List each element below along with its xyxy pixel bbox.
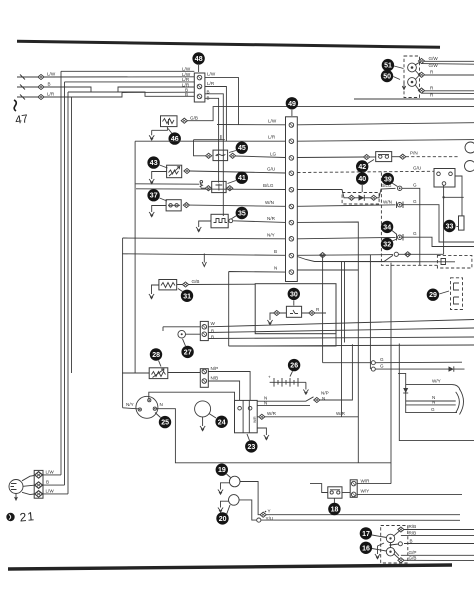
svg-text:N: N	[432, 399, 435, 404]
svg-text:R/B: R/B	[409, 524, 417, 529]
svg-text:35: 35	[238, 211, 246, 218]
svg-text:G/B: G/B	[409, 556, 417, 561]
svg-text:N: N	[160, 402, 163, 407]
svg-text:N: N	[322, 396, 325, 401]
svg-text:G/U: G/U	[413, 166, 421, 171]
svg-text:B: B	[46, 479, 49, 484]
svg-text:45: 45	[238, 145, 246, 152]
svg-text:B/LG: B/LG	[263, 183, 274, 188]
svg-text:27: 27	[184, 349, 192, 356]
svg-text:G/B: G/B	[192, 279, 200, 284]
svg-text:G: G	[380, 357, 384, 362]
svg-text:Y/U: Y/U	[266, 516, 274, 521]
svg-text:Y: Y	[268, 509, 271, 514]
svg-text:G: G	[380, 364, 384, 369]
svg-text:N/Y: N/Y	[126, 402, 134, 407]
svg-text:47: 47	[15, 113, 29, 127]
svg-text:G: G	[413, 183, 417, 188]
svg-text:W/Y: W/Y	[361, 488, 370, 493]
svg-text:28: 28	[152, 352, 160, 359]
svg-text:25: 25	[161, 420, 169, 427]
svg-text:43: 43	[150, 160, 158, 167]
svg-text:L/W: L/W	[46, 489, 55, 494]
svg-text:30: 30	[290, 291, 298, 298]
svg-text:33: 33	[446, 224, 454, 231]
svg-text:L/W: L/W	[268, 119, 277, 124]
svg-text:L/W: L/W	[182, 67, 191, 72]
svg-text:L/W: L/W	[46, 469, 55, 474]
svg-text:N/B: N/B	[211, 376, 219, 381]
svg-text:40: 40	[358, 176, 366, 183]
svg-text:46: 46	[171, 136, 179, 143]
svg-text:G/W: G/W	[429, 56, 439, 61]
svg-text:B: B	[48, 82, 51, 87]
svg-text:W: W	[211, 321, 216, 326]
svg-text:29: 29	[429, 292, 437, 299]
svg-text:B: B	[185, 92, 188, 97]
svg-text:16: 16	[362, 545, 370, 552]
svg-text:19: 19	[218, 467, 226, 474]
svg-text:B/LG: B/LG	[381, 183, 392, 188]
svg-text:W/R: W/R	[253, 416, 257, 423]
svg-text:W/R: W/R	[361, 478, 371, 483]
svg-text:W/N: W/N	[265, 200, 274, 205]
svg-text:L/R: L/R	[47, 92, 55, 97]
svg-text:37: 37	[150, 193, 158, 200]
svg-text:L/W: L/W	[207, 72, 216, 77]
svg-text:R/B: R/B	[409, 530, 417, 535]
svg-text:B: B	[274, 249, 277, 254]
svg-text:L/R: L/R	[207, 81, 215, 86]
svg-text:18: 18	[331, 507, 339, 514]
svg-text:L/W: L/W	[47, 72, 56, 77]
svg-text:N/Y: N/Y	[267, 232, 275, 237]
svg-text:N/P: N/P	[321, 391, 329, 396]
svg-text:B: B	[410, 538, 413, 543]
svg-text:34: 34	[383, 224, 391, 231]
svg-text:L/R: L/R	[268, 135, 276, 140]
svg-text:32: 32	[383, 242, 391, 249]
svg-text:48: 48	[195, 56, 203, 63]
svg-text:N: N	[274, 266, 277, 271]
svg-text:17: 17	[362, 531, 370, 538]
svg-text:G: G	[431, 407, 435, 412]
svg-text:50: 50	[383, 74, 391, 81]
svg-text:R: R	[316, 307, 320, 312]
svg-text:21: 21	[19, 509, 36, 524]
svg-text:26: 26	[290, 363, 298, 370]
svg-text:N: N	[264, 401, 267, 406]
svg-text:31: 31	[183, 293, 191, 300]
svg-text:P/N: P/N	[410, 151, 418, 156]
svg-text:+: +	[268, 375, 271, 380]
svg-text:N/R: N/R	[267, 216, 276, 221]
svg-text:G/P: G/P	[409, 550, 417, 555]
svg-text:51: 51	[384, 63, 392, 70]
svg-text:LG: LG	[270, 151, 277, 156]
svg-text:W/Y: W/Y	[432, 379, 441, 384]
svg-text:23: 23	[248, 444, 256, 451]
svg-text:24: 24	[218, 419, 226, 426]
svg-text:41: 41	[238, 175, 246, 182]
svg-text:G/W: G/W	[429, 63, 439, 68]
svg-text:G/B: G/B	[190, 115, 198, 120]
svg-text:G/U: G/U	[267, 167, 275, 172]
svg-text:W/R: W/R	[267, 411, 277, 416]
svg-text:R: R	[430, 70, 434, 75]
svg-text:R: R	[430, 85, 434, 90]
svg-text:N/P: N/P	[211, 366, 219, 371]
svg-text:20: 20	[219, 516, 227, 523]
svg-text:W/R: W/R	[336, 411, 346, 416]
svg-text:W/N: W/N	[383, 199, 392, 204]
svg-text:49: 49	[288, 101, 296, 108]
svg-text:G: G	[413, 231, 417, 236]
svg-text:42: 42	[358, 164, 366, 171]
svg-text:G: G	[413, 199, 417, 204]
